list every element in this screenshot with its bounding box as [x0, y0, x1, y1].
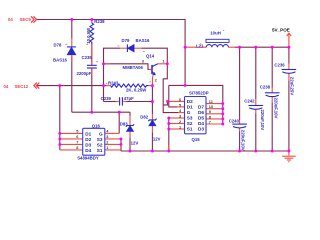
svg-text:S1: S1: [97, 148, 103, 153]
svg-text:SEC9: SEC9: [20, 17, 32, 22]
svg-text:D2: D2: [85, 137, 91, 142]
svg-text:7: 7: [209, 119, 211, 124]
svg-text:Q14: Q14: [146, 54, 155, 59]
svg-text:S2: S2: [187, 121, 193, 126]
svg-text:R243: R243: [108, 80, 119, 85]
svg-text:220uF,10V: 220uF,10V: [260, 110, 265, 131]
svg-text:L21: L21: [196, 44, 204, 49]
svg-text:04: 04: [4, 84, 9, 89]
svg-text:220uF,10V: 220uF,10V: [273, 98, 278, 119]
svg-text:10.0,5W: 10.0,5W: [86, 27, 91, 44]
svg-text:220uF,10V: 220uF,10V: [241, 130, 246, 151]
svg-text:G: G: [99, 131, 103, 136]
svg-text:D6: D6: [198, 110, 204, 115]
svg-text:2K, 0.25W: 2K, 0.25W: [126, 88, 147, 93]
svg-text:D2: D2: [187, 99, 193, 104]
svg-text:D5: D5: [198, 116, 204, 121]
svg-text:D7: D7: [198, 105, 204, 110]
svg-text:S3: S3: [97, 137, 103, 142]
svg-text:Q15: Q15: [192, 137, 201, 142]
svg-text:D82: D82: [140, 115, 148, 120]
svg-text:C235: C235: [82, 55, 93, 60]
svg-text:D3: D3: [85, 142, 91, 147]
svg-text:D1: D1: [85, 131, 91, 136]
svg-text:S2: S2: [97, 142, 103, 147]
svg-text:G: G: [187, 110, 191, 115]
svg-text:MMBTA06: MMBTA06: [123, 65, 144, 70]
svg-text:2200pF: 2200pF: [77, 71, 92, 76]
svg-text:04: 04: [8, 17, 13, 22]
svg-text:D1: D1: [187, 105, 193, 110]
svg-text:10uH: 10uH: [210, 31, 221, 36]
svg-text:R238: R238: [94, 19, 105, 24]
svg-text:5V_POE: 5V_POE: [272, 27, 290, 32]
svg-text:Q16: Q16: [92, 123, 101, 128]
svg-text:D78: D78: [54, 43, 62, 48]
svg-text:SEC12: SEC12: [15, 84, 29, 89]
svg-text:C236: C236: [274, 62, 285, 67]
svg-text:C240: C240: [229, 118, 240, 123]
svg-text:12V: 12V: [153, 137, 161, 142]
svg-text:C239: C239: [101, 96, 112, 101]
svg-text:S4894BDY: S4894BDY: [77, 155, 99, 160]
svg-text:Si7852DP: Si7852DP: [189, 91, 209, 96]
svg-text:BAS16: BAS16: [136, 38, 150, 43]
svg-text:C238: C238: [260, 84, 271, 89]
svg-text:22uF,25V: 22uF,25V: [289, 77, 294, 96]
svg-text:D79: D79: [122, 38, 130, 43]
svg-text:D83: D83: [120, 121, 128, 126]
svg-text:S1: S1: [187, 127, 193, 132]
svg-text:47pF: 47pF: [124, 96, 134, 101]
svg-text:C242: C242: [244, 99, 255, 104]
svg-text:12V: 12V: [131, 141, 139, 146]
svg-text:7: 7: [76, 140, 78, 145]
svg-text:S3: S3: [187, 116, 193, 121]
svg-text:BAS16: BAS16: [53, 58, 67, 63]
svg-text:D4: D4: [85, 148, 91, 153]
svg-text:D3: D3: [198, 127, 204, 132]
svg-text:D4: D4: [198, 121, 204, 126]
